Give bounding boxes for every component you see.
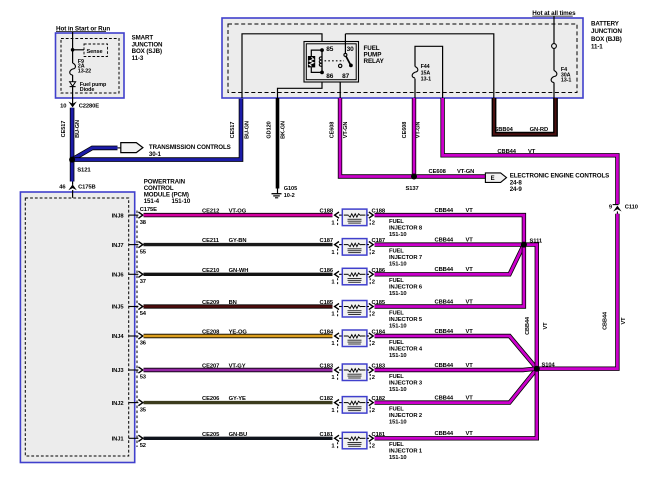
svg-text:C188: C188 xyxy=(320,209,334,215)
svg-text:INJ5: INJ5 xyxy=(112,305,125,311)
svg-text:C185: C185 xyxy=(320,300,334,306)
svg-text:S137: S137 xyxy=(406,186,419,192)
svg-text:VT-GN: VT-GN xyxy=(343,122,349,139)
svg-text:F44: F44 xyxy=(421,64,430,70)
svg-text:C110: C110 xyxy=(625,205,638,211)
svg-text:85: 85 xyxy=(326,46,334,53)
svg-text:GN-BU: GN-BU xyxy=(229,432,248,438)
svg-text:FUEL: FUEL xyxy=(389,442,404,448)
svg-text:E: E xyxy=(491,176,495,182)
svg-text:FUEL: FUEL xyxy=(389,340,404,346)
svg-text:INJECTOR 1: INJECTOR 1 xyxy=(389,449,423,455)
svg-text:VT: VT xyxy=(543,322,549,330)
svg-text:151-10: 151-10 xyxy=(389,291,406,297)
svg-text:INJECTOR 7: INJECTOR 7 xyxy=(389,255,422,261)
svg-text:CE608: CE608 xyxy=(329,122,335,139)
svg-text:C181: C181 xyxy=(320,432,334,438)
svg-text:53: 53 xyxy=(140,375,147,381)
svg-text:FUEL: FUEL xyxy=(389,374,404,380)
svg-text:S111: S111 xyxy=(530,238,543,244)
svg-text:FUEL: FUEL xyxy=(389,249,404,255)
svg-text:INJECTOR 3: INJECTOR 3 xyxy=(389,380,423,386)
svg-text:INJ8: INJ8 xyxy=(112,213,125,219)
svg-text:30: 30 xyxy=(347,46,355,53)
svg-text:151-10: 151-10 xyxy=(389,232,406,238)
svg-text:35: 35 xyxy=(140,407,147,413)
svg-text:C2280E: C2280E xyxy=(79,104,100,110)
svg-text:151-10: 151-10 xyxy=(389,455,406,461)
svg-text:46: 46 xyxy=(59,184,66,190)
svg-text:BU-GN: BU-GN xyxy=(245,121,251,139)
svg-text:GY-YE: GY-YE xyxy=(229,396,246,402)
svg-text:C175E: C175E xyxy=(140,207,157,213)
svg-text:INJ3: INJ3 xyxy=(112,368,125,374)
svg-text:11-1: 11-1 xyxy=(591,44,603,51)
svg-text:CBB44: CBB44 xyxy=(525,316,531,335)
svg-text:TRANSMISSION CONTROLS: TRANSMISSION CONTROLS xyxy=(149,144,231,151)
svg-text:86: 86 xyxy=(326,73,334,80)
svg-text:11-3: 11-3 xyxy=(132,55,144,62)
svg-text:C183: C183 xyxy=(320,364,334,370)
svg-text:CE608: CE608 xyxy=(429,169,447,175)
svg-text:JUNCTION: JUNCTION xyxy=(591,28,622,35)
svg-text:CE206: CE206 xyxy=(202,396,220,402)
svg-text:10-2: 10-2 xyxy=(284,193,295,199)
svg-text:INJECTOR 5: INJECTOR 5 xyxy=(389,317,423,323)
svg-text:CE608: CE608 xyxy=(402,122,408,139)
svg-text:CE209: CE209 xyxy=(202,300,220,306)
svg-text:RELAY: RELAY xyxy=(364,58,385,65)
svg-text:151-10: 151-10 xyxy=(389,387,406,393)
svg-text:151-10: 151-10 xyxy=(389,323,406,329)
svg-text:FUEL: FUEL xyxy=(389,278,404,284)
svg-text:VT: VT xyxy=(528,149,536,155)
svg-text:Diode: Diode xyxy=(80,87,95,93)
svg-text:INJECTOR 4: INJECTOR 4 xyxy=(389,346,423,352)
svg-text:G105: G105 xyxy=(284,186,297,192)
svg-text:INJECTOR 6: INJECTOR 6 xyxy=(389,285,423,291)
svg-text:GD120: GD120 xyxy=(266,121,272,138)
svg-text:15A: 15A xyxy=(421,70,431,76)
svg-text:ELECTRONIC ENGINE CONTROLS: ELECTRONIC ENGINE CONTROLS xyxy=(510,173,610,180)
svg-text:C182: C182 xyxy=(320,396,333,402)
svg-text:36: 36 xyxy=(140,341,147,347)
svg-text:CE517: CE517 xyxy=(230,122,236,139)
svg-text:151-10: 151-10 xyxy=(389,353,406,359)
svg-text:151-10: 151-10 xyxy=(389,420,406,426)
svg-text:C187: C187 xyxy=(320,238,333,244)
svg-text:151-10: 151-10 xyxy=(389,262,406,268)
svg-text:2: 2 xyxy=(372,250,375,256)
svg-text:INJ1: INJ1 xyxy=(112,437,125,443)
svg-text:151-10: 151-10 xyxy=(172,198,191,205)
svg-text:VT: VT xyxy=(621,317,627,325)
svg-text:INJECTOR 8: INJECTOR 8 xyxy=(389,226,423,232)
svg-text:2: 2 xyxy=(372,408,375,414)
svg-text:2: 2 xyxy=(372,375,375,381)
svg-text:Sense: Sense xyxy=(87,49,103,55)
svg-text:13-1: 13-1 xyxy=(421,76,431,82)
svg-text:38: 38 xyxy=(140,220,147,226)
svg-text:CE208: CE208 xyxy=(202,330,220,336)
svg-text:CE517: CE517 xyxy=(61,121,67,138)
svg-text:CE210: CE210 xyxy=(202,268,219,274)
svg-text:INJ4: INJ4 xyxy=(112,334,125,340)
svg-text:C175B: C175B xyxy=(78,184,96,190)
svg-text:2: 2 xyxy=(372,341,375,347)
svg-text:VT-OG: VT-OG xyxy=(229,209,247,215)
svg-text:C186: C186 xyxy=(320,268,334,274)
svg-text:BOX (BJB): BOX (BJB) xyxy=(591,36,622,43)
svg-text:87: 87 xyxy=(342,73,350,80)
svg-text:CBB44: CBB44 xyxy=(603,311,609,330)
svg-text:2: 2 xyxy=(372,312,375,318)
svg-text:CBB44: CBB44 xyxy=(497,149,516,155)
svg-text:13-1: 13-1 xyxy=(561,78,571,84)
svg-text:S104: S104 xyxy=(542,363,556,369)
svg-text:GY-BN: GY-BN xyxy=(229,238,247,244)
svg-text:BATTERY: BATTERY xyxy=(591,20,620,27)
svg-text:GN-WH: GN-WH xyxy=(229,268,249,274)
svg-text:37: 37 xyxy=(140,279,146,285)
svg-text:2: 2 xyxy=(372,220,375,226)
svg-text:FUEL: FUEL xyxy=(389,219,404,225)
svg-text:CE212: CE212 xyxy=(202,209,219,215)
svg-text:24-9: 24-9 xyxy=(510,186,523,193)
svg-text:2: 2 xyxy=(372,280,375,286)
svg-text:GN-RD: GN-RD xyxy=(530,127,549,133)
svg-text:S121: S121 xyxy=(77,168,91,174)
svg-text:CE205: CE205 xyxy=(202,432,220,438)
svg-text:INJ7: INJ7 xyxy=(112,243,124,249)
svg-text:VT-GN: VT-GN xyxy=(416,122,422,139)
svg-text:2: 2 xyxy=(372,444,375,450)
svg-text:CE211: CE211 xyxy=(202,238,220,244)
svg-text:CE207: CE207 xyxy=(202,364,219,370)
svg-text:SBB04: SBB04 xyxy=(495,127,514,133)
svg-text:YE-OG: YE-OG xyxy=(229,330,248,336)
svg-text:VT-GY: VT-GY xyxy=(229,364,246,370)
svg-text:151-4: 151-4 xyxy=(144,198,160,205)
svg-text:10: 10 xyxy=(60,104,66,110)
svg-text:FUEL: FUEL xyxy=(389,407,404,413)
svg-text:55: 55 xyxy=(140,249,147,255)
svg-text:BN: BN xyxy=(229,300,237,306)
svg-text:VT-GN: VT-GN xyxy=(457,169,474,175)
svg-text:BK-GN: BK-GN xyxy=(281,121,287,139)
svg-text:C184: C184 xyxy=(320,330,334,336)
svg-text:BU-GN: BU-GN xyxy=(75,120,81,138)
svg-text:INJECTOR 2: INJECTOR 2 xyxy=(389,413,422,419)
svg-text:INJ6: INJ6 xyxy=(112,273,125,279)
svg-text:52: 52 xyxy=(140,443,146,449)
svg-text:INJ2: INJ2 xyxy=(112,401,124,407)
svg-text:13-22: 13-22 xyxy=(78,68,91,74)
svg-text:FUEL: FUEL xyxy=(389,310,404,316)
svg-text:54: 54 xyxy=(140,311,147,317)
svg-text:30-1: 30-1 xyxy=(149,151,162,158)
